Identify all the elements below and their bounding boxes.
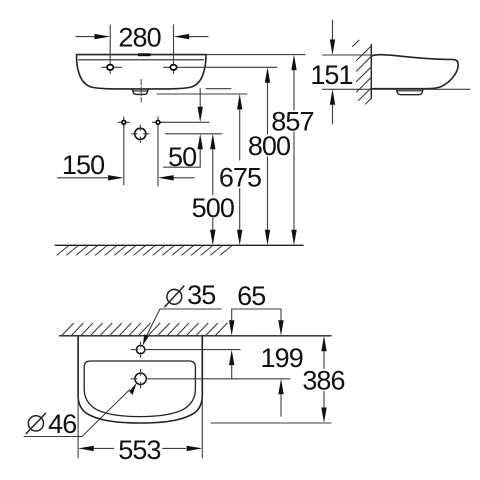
svg-text:35: 35 bbox=[187, 280, 215, 310]
faucet hole reference line bbox=[145, 349, 240, 351]
side view bottom line bbox=[372, 88, 427, 90]
centerline through trap bbox=[140, 80, 142, 103]
dimension line 857 bbox=[291, 55, 296, 246]
dimension 553 bbox=[78, 398, 202, 458]
anchor line reference for 50 top bbox=[160, 121, 209, 123]
floor line bbox=[55, 244, 303, 246]
washbasin front view outline bbox=[77, 55, 206, 89]
svg-text:280: 280 bbox=[118, 23, 160, 53]
faucet hole plan view bbox=[131, 342, 145, 357]
svg-text:50: 50 bbox=[168, 142, 196, 172]
basin bottom reference segment bbox=[206, 88, 231, 90]
leader for diameter 35 bbox=[143, 309, 222, 346]
drain height reference line for 500 bbox=[166, 133, 222, 135]
washbasin side view profile bbox=[372, 55, 459, 89]
dimension 280 bbox=[76, 34, 208, 39]
drain trap side view bbox=[397, 89, 424, 95]
svg-text:553: 553 bbox=[118, 435, 160, 465]
mounting hole right bbox=[164, 25, 278, 74]
svg-text:675: 675 bbox=[219, 163, 261, 193]
rim reference line to 857 bbox=[206, 54, 305, 56]
plan view wall line bbox=[60, 335, 332, 337]
svg-text:800: 800 bbox=[248, 131, 290, 161]
anchor cross right bbox=[153, 117, 164, 128]
diameter symbol 35 bbox=[165, 286, 184, 307]
side view wall hatching bbox=[353, 40, 372, 104]
svg-text:199: 199 bbox=[261, 343, 303, 373]
drain trap front view bbox=[132, 89, 148, 95]
drain symbol front view bbox=[132, 125, 150, 143]
dimension line 675 bbox=[237, 94, 242, 245]
overflow mark bbox=[138, 53, 151, 56]
dimension line 800 bbox=[265, 67, 270, 245]
svg-text:151: 151 bbox=[310, 60, 352, 90]
washbasin front rim inner line bbox=[79, 59, 204, 61]
svg-text:150: 150 bbox=[62, 150, 104, 180]
diameter symbol 46 bbox=[26, 413, 45, 433]
dimension 151 bbox=[323, 20, 471, 124]
side view wall line bbox=[370, 45, 372, 99]
floor hatching bbox=[57, 246, 231, 255]
plan view wall hatching bbox=[62, 323, 227, 335]
dimension 386 bbox=[211, 336, 331, 423]
dimension line 500 bbox=[210, 134, 215, 246]
leader for diameter 46 bbox=[24, 383, 137, 437]
trap bottom reference line for 675 bbox=[157, 93, 247, 95]
mounting hole left bbox=[102, 25, 122, 74]
dimension 65 bbox=[229, 309, 281, 379]
drain hole plan view bbox=[131, 370, 146, 389]
dimension 199 bbox=[278, 309, 283, 416]
svg-text:500: 500 bbox=[192, 193, 234, 223]
svg-text:386: 386 bbox=[302, 365, 344, 395]
svg-text:46: 46 bbox=[48, 409, 76, 439]
drain hole reference line bbox=[146, 378, 290, 380]
washbasin plan view outer outline bbox=[78, 336, 202, 423]
svg-text:65: 65 bbox=[237, 281, 265, 311]
washbasin plan view inner basin outline bbox=[84, 361, 195, 417]
anchor cross left bbox=[118, 117, 129, 128]
dimension 150 bbox=[58, 125, 195, 186]
dimension 50 callout bbox=[164, 89, 203, 168]
